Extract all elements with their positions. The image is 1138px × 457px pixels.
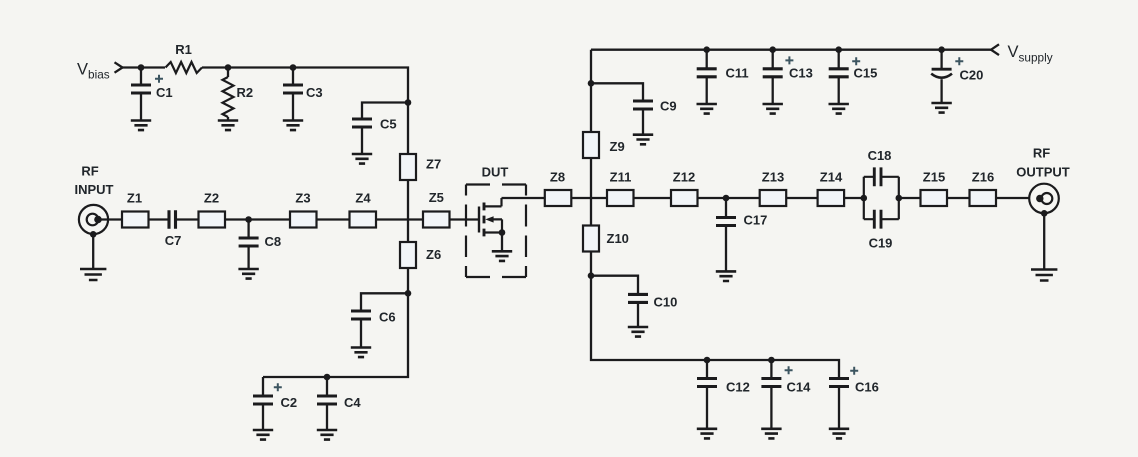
svg-text:OUTPUT: OUTPUT bbox=[1016, 165, 1070, 180]
svg-text:C1: C1 bbox=[156, 85, 173, 100]
svg-text:Z6: Z6 bbox=[426, 247, 441, 262]
svg-text:C15: C15 bbox=[854, 66, 878, 81]
svg-text:C17: C17 bbox=[744, 213, 768, 228]
svg-text:Z5: Z5 bbox=[429, 190, 444, 205]
svg-text:Z1: Z1 bbox=[127, 190, 142, 205]
svg-text:DUT: DUT bbox=[482, 165, 509, 180]
svg-text:Z14: Z14 bbox=[820, 170, 843, 185]
svg-text:C9: C9 bbox=[660, 99, 677, 114]
svg-text:RF: RF bbox=[81, 164, 98, 179]
svg-text:Z2: Z2 bbox=[204, 190, 219, 205]
svg-text:R2: R2 bbox=[237, 85, 254, 100]
svg-text:Z13: Z13 bbox=[762, 170, 784, 185]
svg-text:Z11: Z11 bbox=[610, 169, 632, 184]
svg-text:Z3: Z3 bbox=[295, 190, 310, 205]
svg-text:Z4: Z4 bbox=[355, 190, 371, 205]
svg-text:Z15: Z15 bbox=[923, 170, 945, 185]
svg-text:R1: R1 bbox=[175, 42, 192, 57]
svg-text:INPUT: INPUT bbox=[75, 182, 114, 197]
svg-text:C16: C16 bbox=[855, 379, 879, 394]
svg-text:C3: C3 bbox=[306, 85, 323, 100]
svg-text:Z8: Z8 bbox=[550, 169, 565, 184]
svg-text:C12: C12 bbox=[726, 379, 750, 394]
svg-text:Z16: Z16 bbox=[972, 170, 994, 185]
svg-text:C14: C14 bbox=[787, 379, 812, 394]
svg-text:RF: RF bbox=[1033, 146, 1050, 161]
svg-text:C2: C2 bbox=[281, 395, 298, 410]
svg-text:C7: C7 bbox=[165, 233, 182, 248]
svg-text:C4: C4 bbox=[344, 395, 361, 410]
svg-text:C11: C11 bbox=[726, 66, 749, 81]
svg-text:Z12: Z12 bbox=[673, 169, 695, 184]
svg-text:C18: C18 bbox=[868, 148, 892, 163]
svg-text:C19: C19 bbox=[869, 236, 893, 251]
svg-text:C20: C20 bbox=[960, 67, 984, 82]
svg-text:C5: C5 bbox=[380, 117, 397, 132]
svg-text:Z10: Z10 bbox=[607, 231, 629, 246]
svg-text:C6: C6 bbox=[379, 310, 396, 325]
svg-text:C13: C13 bbox=[789, 66, 813, 81]
svg-text:Z9: Z9 bbox=[610, 139, 625, 154]
svg-text:C10: C10 bbox=[654, 295, 678, 310]
svg-text:Z7: Z7 bbox=[426, 157, 441, 172]
svg-text:C8: C8 bbox=[265, 234, 282, 249]
